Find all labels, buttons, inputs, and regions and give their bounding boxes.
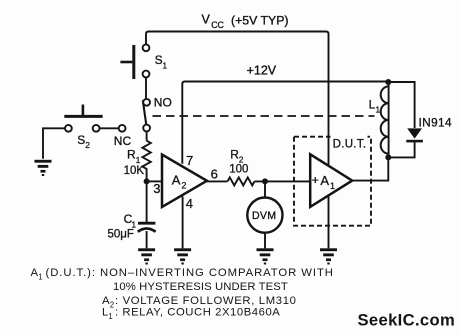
label A2 <box>172 172 187 190</box>
svg-text:7: 7 <box>186 153 193 168</box>
svg-text:10% HYSTERESIS UNDER TEST: 10% HYSTERESIS UNDER TEST <box>113 281 288 293</box>
mechanical linkage (dashed) to relay L1 <box>153 115 375 117</box>
wire +12V rail and A2 pin 7 <box>182 82 388 164</box>
wire node to DVM <box>264 181 266 197</box>
svg-text:A: A <box>172 172 181 187</box>
svg-text:2: 2 <box>181 181 186 191</box>
wire node to C1 <box>146 181 148 222</box>
svg-text:50μF: 50μF <box>108 228 134 240</box>
svg-text:1: 1 <box>375 105 380 115</box>
wire R2 to A1 input <box>255 180 311 182</box>
svg-text:D.U.T.: D.U.T. <box>333 139 367 151</box>
contact pole terminal <box>143 125 150 132</box>
label R1 <box>127 148 141 165</box>
label L1 <box>369 97 381 114</box>
node L1 top (+12V) <box>385 79 391 85</box>
resistor R2 <box>228 177 255 185</box>
node 3 junction <box>144 178 150 184</box>
wire S1 to NO contact <box>145 78 147 99</box>
svg-text:: VOLTAGE FOLLOWER, LM310: : VOLTAGE FOLLOWER, LM310 <box>115 295 297 307</box>
relay contact arm <box>143 100 146 124</box>
note line 1 <box>31 267 334 282</box>
label S1 <box>155 53 168 70</box>
svg-text:V: V <box>202 13 211 27</box>
power label Vcc (+5V TYP) <box>202 13 289 31</box>
svg-text:+: + <box>312 173 319 187</box>
svg-text:(D.U.T.): NON–INVERTING COMPAR: (D.U.T.): NON–INVERTING COMPARATOR WITH <box>46 267 334 279</box>
wire node to A2 input <box>147 180 162 182</box>
wire S2 to ground <box>43 128 65 159</box>
svg-text:4: 4 <box>186 196 193 211</box>
switch S1 <box>120 44 149 79</box>
ground (S2) <box>35 160 52 176</box>
resistor R1 <box>142 141 150 181</box>
note line 3 <box>102 295 297 310</box>
node NO contact <box>143 99 150 106</box>
svg-text:CC: CC <box>211 20 224 30</box>
wire A2 pin 4 to ground <box>182 197 184 249</box>
svg-text:+12V: +12V <box>247 64 277 78</box>
ground (DVM) <box>257 248 274 264</box>
wire A2 output to R2 <box>207 180 228 182</box>
svg-text:2: 2 <box>110 300 114 309</box>
diode IN914 <box>406 128 423 142</box>
wire pole to R1 <box>146 132 148 141</box>
svg-text:DVM: DVM <box>252 210 276 222</box>
svg-text:1: 1 <box>162 60 167 70</box>
svg-text:1: 1 <box>108 312 112 321</box>
meter DVM <box>247 198 282 233</box>
svg-text:10K: 10K <box>124 165 145 177</box>
ground (C1) <box>138 248 155 264</box>
wire diode branch <box>388 82 414 128</box>
svg-text:100: 100 <box>229 163 248 175</box>
ground (A2 pin 4) <box>174 248 191 264</box>
note line 4 <box>102 307 280 322</box>
wire Vcc rail: S1 top to A1 V+ pin <box>146 32 329 166</box>
svg-text:IN914: IN914 <box>419 115 453 129</box>
svg-text:2: 2 <box>85 140 90 150</box>
svg-text:1: 1 <box>330 181 335 191</box>
svg-text:NC: NC <box>114 134 132 148</box>
svg-text:1: 1 <box>136 155 141 165</box>
node DVM junction <box>262 178 268 184</box>
wire A1 output to L1 node <box>352 157 388 180</box>
node L1 bottom <box>385 154 391 160</box>
svg-text:S: S <box>77 133 85 147</box>
wire S2 to NC contact <box>100 127 119 129</box>
svg-text:A: A <box>320 173 329 188</box>
capacitor C1 <box>138 223 156 248</box>
svg-text:: RELAY, COUCH 2X10B460A: : RELAY, COUCH 2X10B460A <box>115 307 280 319</box>
node NC contact <box>119 125 126 132</box>
DUT dashed box <box>294 137 371 226</box>
svg-text:3: 3 <box>153 181 160 196</box>
wire DVM to ground <box>264 233 266 249</box>
inductor L1 <box>388 82 390 157</box>
label C1 <box>124 212 137 229</box>
svg-text:1: 1 <box>38 273 42 282</box>
svg-text:NO: NO <box>154 96 172 110</box>
wire A1 ground pin <box>328 196 330 248</box>
ground (A1) <box>320 248 337 264</box>
op-amp A1 <box>310 154 352 207</box>
label + A1 <box>312 173 335 191</box>
svg-text:SeekIC.com: SeekIC.com <box>358 311 456 330</box>
switch S2 <box>64 105 102 132</box>
label R2 <box>230 147 244 164</box>
label S2 <box>77 133 90 150</box>
svg-text:(+5V TYP): (+5V TYP) <box>231 13 289 27</box>
svg-text:6: 6 <box>211 167 218 182</box>
op-amp A2 <box>162 155 207 207</box>
